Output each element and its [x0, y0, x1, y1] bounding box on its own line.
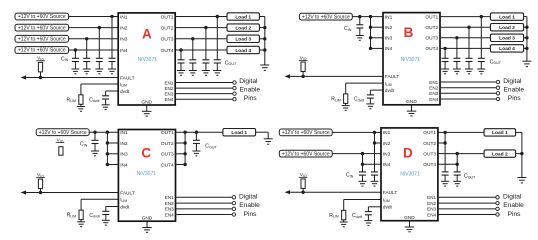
svg-text:IN1: IN1	[383, 130, 391, 136]
wire EN4 (D)	[438, 214, 496, 216]
ground of COUT3 (A)	[189, 71, 197, 76]
wire GND pin (A)	[146, 105, 148, 111]
svg-text:+12V to +60V Source: +12V to +60V Source	[18, 25, 66, 31]
wire EN3 (C)	[176, 208, 233, 210]
wire bus to IN3 (C)	[107, 153, 118, 155]
resistor VIO (A)	[38, 62, 42, 72]
wire FAULT line (A)	[26, 77, 118, 79]
svg-text:+12V to +60V Source: +12V to +60V Source	[39, 130, 87, 136]
ground of RLIM (D)	[340, 222, 348, 227]
wire dvdt (B)	[370, 89, 383, 91]
svg-text:IN1: IN1	[120, 130, 128, 136]
svg-text:GND: GND	[142, 216, 153, 222]
wire bus to OUT3 (C)	[176, 153, 186, 155]
svg-text:IN3: IN3	[120, 152, 128, 158]
wire EN1 (C)	[176, 196, 233, 198]
wire source1 to IN1 (D)	[332, 131, 381, 133]
svg-text:FAULT: FAULT	[385, 74, 400, 80]
svg-text:Cdvdt: Cdvdt	[89, 97, 99, 103]
svg-text:IN4: IN4	[120, 48, 128, 54]
enable pin circle EN1 (B)	[496, 80, 499, 83]
junction IN2/CIN (A)	[98, 26, 101, 29]
load box Load 1 (C)	[223, 129, 256, 136]
svg-text:FAULT: FAULT	[120, 190, 135, 196]
wire OUT4 to Load 4 (B)	[440, 47, 490, 49]
junction load return (B)	[525, 26, 528, 29]
capacitor COUT1 (B)	[478, 58, 485, 61]
wire bus to IN2 (C)	[107, 142, 118, 144]
svg-text:EN1: EN1	[164, 80, 173, 85]
enable pin circle EN3 (C)	[232, 207, 235, 210]
op-amp U-B NIV3071 chip body	[383, 13, 440, 105]
wire CIN (C) to ground	[94, 144, 96, 152]
wire source2 to IN3 (D)	[332, 153, 381, 155]
ground of load return (C)	[264, 139, 273, 144]
ground of CIN (C)	[91, 151, 99, 156]
ground of load return (A)	[260, 65, 269, 70]
svg-text:D: D	[403, 146, 413, 161]
capacitor COUT1 (A)	[214, 60, 221, 63]
wire OUT3 to Load 2 (D)	[438, 153, 484, 155]
wire OUT1 to Load 1 (C)	[176, 131, 223, 133]
wire OUT3 to Load 3 (A)	[175, 38, 227, 40]
arrowhead VO sense line (A)	[21, 75, 27, 79]
load box Load 3 (A)	[227, 35, 259, 42]
ground of CIN-b (D)	[371, 181, 379, 186]
junction OUT2/COUT (A)	[204, 26, 207, 29]
capacitor COUT2 (A)	[202, 60, 209, 63]
capacitor CIN4 (A)	[72, 58, 79, 61]
wire OUT4 stub (D)	[438, 163, 457, 165]
wire COUT-b to ground (D)	[456, 175, 458, 181]
wire Load 1 to return bus (D)	[516, 131, 522, 133]
svg-text:RLIM: RLIM	[67, 213, 77, 219]
svg-text:EN1: EN1	[165, 195, 174, 200]
junction OUT2/COUT (B)	[467, 26, 470, 29]
op-amp U-D NIV3071 chip body	[381, 128, 438, 221]
wire OUT2 stub (D)	[438, 142, 445, 144]
svg-text:IN1: IN1	[120, 14, 128, 20]
svg-text:EN3: EN3	[165, 207, 174, 212]
wire EN1 (B)	[440, 81, 496, 83]
svg-text:CIN: CIN	[344, 26, 352, 32]
svg-text:Digital: Digital	[239, 193, 258, 200]
wire source4 to IN4 (A)	[69, 49, 119, 51]
wire to CIN1 (A)	[111, 17, 113, 59]
wire bus to IN4 (C)	[107, 164, 118, 166]
wire down to Cdvdt (B)	[369, 90, 371, 95]
svg-text:GND: GND	[404, 215, 415, 221]
capacitor COUT-a (D)	[442, 172, 449, 175]
ground of GND pin (A)	[142, 111, 152, 116]
svg-text:Load 1: Load 1	[235, 14, 251, 20]
ground of Cdvdt (D)	[364, 221, 372, 226]
wire to CIN3 (A)	[86, 39, 88, 59]
svg-text:OUT2: OUT2	[161, 25, 174, 31]
capacitor COUT (C)	[193, 140, 200, 143]
svg-text:RLIM: RLIM	[329, 213, 339, 219]
svg-text:COUT: COUT	[464, 174, 476, 180]
wire CIN3 (A) to ground	[86, 62, 88, 70]
junction input bus/IN3 (C)	[106, 152, 109, 155]
wire COUT3 (A) to ground	[192, 63, 194, 71]
svg-text:OUT1: OUT1	[161, 14, 174, 20]
resistor VIO (B)	[301, 62, 305, 72]
wire GND pin (B)	[411, 105, 413, 111]
capacitor CIN-a (D)	[359, 172, 366, 175]
svg-text:OUT1: OUT1	[161, 130, 174, 136]
capacitor CIN2 (A)	[96, 58, 103, 61]
resistor VIO under source (C)	[59, 147, 63, 156]
wire RLIM to ground (C)	[80, 220, 82, 222]
capacitor Cdvdt (A)	[102, 96, 109, 99]
ground of GND pin (D)	[405, 227, 415, 232]
junction output bus top (C)	[183, 131, 186, 134]
load box Load 1 (B)	[490, 13, 523, 20]
enable pin circle EN3 (D)	[496, 207, 499, 210]
wire input bus (B)	[370, 17, 372, 49]
junction input bus/IN3 (B)	[369, 36, 372, 39]
wire output bus (C)	[184, 132, 186, 164]
wire COUT2 (A) to ground	[205, 63, 207, 71]
wire down to Cdvdt (A)	[105, 91, 107, 96]
wire bus to OUT4 (C)	[176, 164, 186, 166]
wire to COUT2 (B)	[468, 27, 470, 58]
wire down to RLIM (A)	[80, 84, 82, 95]
wire COUT1 (A) to ground	[216, 63, 218, 71]
svg-text:IN2: IN2	[383, 141, 391, 147]
wire ILIM (A)	[81, 83, 118, 85]
wire to COUT1 (B)	[480, 17, 482, 59]
junction output bus/OUT3 (C)	[183, 152, 186, 155]
svg-text:OUT4: OUT4	[161, 162, 174, 168]
wire FAULT line (D)	[290, 191, 381, 193]
wire source3 to IN3 (A)	[69, 38, 119, 40]
load box Load 2 (A)	[227, 24, 259, 31]
svg-text:OUT3: OUT3	[425, 36, 438, 42]
svg-text:dvdt: dvdt	[385, 88, 395, 94]
wire CIN2 (A) to ground	[98, 62, 100, 70]
junction input bus top (C)	[106, 131, 109, 134]
junction input bus/IN2 (B)	[369, 26, 372, 29]
junction load return (B)	[525, 36, 528, 39]
svg-text:IN3: IN3	[383, 151, 391, 157]
arrowhead VO sense line (D)	[285, 190, 291, 194]
wire to COUT2 (A)	[205, 28, 207, 60]
wire Load 2 to return bus (A)	[259, 27, 264, 29]
svg-text:Load 4: Load 4	[499, 46, 515, 52]
wire COUT4 (A) to ground	[180, 63, 182, 71]
wire EN4 (A)	[175, 98, 233, 100]
ground of CIN-a (D)	[359, 181, 367, 186]
source V1 (+12V to +60V) C	[36, 129, 89, 136]
svg-text:RLIM: RLIM	[331, 96, 341, 102]
resistor RLIM (C)	[79, 210, 83, 220]
wire dvdt (A)	[106, 90, 119, 92]
svg-text:CIN: CIN	[80, 142, 88, 148]
enable pin circle EN4 (D)	[496, 213, 499, 216]
wire bus to IN3 (B)	[371, 37, 384, 39]
wire bus to IN4 (B)	[371, 47, 384, 49]
ground of RLIM (B)	[342, 106, 350, 111]
ground of load return (D)	[517, 178, 526, 183]
svg-text:OUT3: OUT3	[161, 152, 174, 158]
wire FAULT line (C)	[26, 192, 118, 194]
wire Load 3 to return bus (B)	[524, 37, 527, 39]
wire EN1 (A)	[175, 82, 233, 84]
svg-text:OUT4: OUT4	[425, 46, 438, 52]
svg-text:IN3: IN3	[120, 37, 128, 43]
svg-text:OUT4: OUT4	[161, 48, 174, 54]
wire VIO resistor to fault line (B)	[302, 72, 304, 77]
svg-text:GND: GND	[406, 99, 417, 105]
svg-text:FAULT: FAULT	[383, 190, 398, 196]
svg-text:Digital: Digital	[503, 78, 522, 85]
svg-text:EN3: EN3	[429, 91, 438, 96]
svg-text:Enable: Enable	[503, 202, 524, 209]
svg-text:IN2: IN2	[385, 25, 393, 31]
underline of VIO (B)	[299, 59, 308, 61]
load box Load 4 (B)	[490, 45, 523, 52]
svg-text:Load 1: Load 1	[499, 14, 515, 20]
svg-text:Load 3: Load 3	[499, 36, 515, 42]
ground of COUT4 (B)	[441, 69, 449, 74]
svg-text:Load 1: Load 1	[492, 130, 508, 136]
wire to CIN2 (A)	[98, 28, 100, 59]
ground of CIN1 (A)	[108, 69, 116, 74]
junction output bus/OUT2 (C)	[183, 141, 186, 144]
load box Load 1 (A)	[227, 13, 259, 20]
svg-text:+12V to +60V Source: +12V to +60V Source	[18, 48, 66, 54]
wire ILIM (D)	[344, 199, 381, 201]
wire return bus to ground (A)	[264, 50, 266, 65]
capacitor COUT3 (B)	[453, 58, 460, 61]
svg-text:IN2: IN2	[120, 141, 128, 147]
svg-text:A: A	[142, 26, 152, 41]
svg-text:+12V to +60V Source: +12V to +60V Source	[282, 130, 330, 136]
capacitor Cdvdt (D)	[365, 212, 372, 215]
enable pin circle EN3 (B)	[496, 92, 499, 95]
wire EN3 (A)	[175, 93, 233, 95]
wire OUT1 to Load 1 (B)	[440, 16, 490, 18]
wire return bus to ground (B)	[526, 48, 528, 61]
junction OUT2 bus (D)	[443, 141, 446, 144]
svg-text:Pins: Pins	[508, 95, 522, 102]
wire to CIN (C)	[94, 132, 96, 140]
arrowhead VO sense line (B)	[285, 74, 291, 78]
junction OUT3/COUT (B)	[455, 36, 458, 39]
svg-text:+12V to +60V Source: +12V to +60V Source	[302, 14, 350, 20]
resistor VIO (C)	[38, 179, 42, 189]
wire down to Cdvdt (C)	[105, 207, 107, 212]
wire COUT (C) to ground	[195, 144, 197, 152]
svg-text:OUT2: OUT2	[423, 141, 436, 147]
wire COUT2 (B) to ground	[468, 62, 470, 70]
svg-text:IN2: IN2	[120, 25, 128, 31]
svg-text:EN4: EN4	[427, 212, 436, 217]
svg-text:IN4: IN4	[383, 162, 391, 168]
svg-text:dvdt: dvdt	[120, 89, 130, 95]
svg-text:Load 2: Load 2	[499, 25, 515, 31]
svg-text:Cdvdt: Cdvdt	[352, 213, 362, 219]
svg-text:Load 4: Load 4	[235, 48, 251, 54]
resistor RLIM (B)	[344, 94, 348, 104]
source V1 (+12V to +60V) B	[299, 13, 352, 20]
svg-text:Load 1: Load 1	[231, 130, 247, 136]
op-amp U-A NIV3071 chip body	[118, 13, 175, 105]
junction IN1/CIN (A)	[110, 15, 113, 18]
enable pin circle EN2 (C)	[232, 201, 235, 204]
junction IN2 bus (D)	[373, 141, 376, 144]
wire dvdt (C)	[106, 206, 119, 208]
svg-text:NIV3071: NIV3071	[137, 171, 157, 177]
wire Load 3 to return bus (A)	[259, 38, 264, 40]
load box Load 4 (A)	[227, 46, 259, 53]
svg-text:COUT: COUT	[225, 60, 237, 66]
junction VIO/fault (A)	[39, 76, 42, 79]
enable pin circle EN4 (C)	[232, 213, 235, 216]
junction OUT4/COUT (A)	[179, 48, 182, 51]
source V2 (+12V to +60V) D	[279, 150, 332, 157]
wire input bus 2 (D)	[362, 154, 364, 172]
ground of COUT3 (B)	[453, 69, 461, 74]
capacitor Cdvdt (C)	[102, 211, 109, 214]
junction load return (A)	[263, 48, 266, 51]
wire to COUT3 (B)	[456, 38, 458, 59]
load box Load 2 (D)	[484, 150, 515, 157]
wire Load 1 to return bus (A)	[259, 16, 264, 18]
svg-text:OUT4: OUT4	[423, 162, 436, 168]
ground of RLIM (A)	[77, 107, 85, 112]
wire Load 4 to return bus (A)	[259, 49, 264, 51]
wire EN4 (C)	[176, 214, 233, 216]
svg-text:EN4: EN4	[164, 97, 173, 102]
wire EN2 (A)	[175, 87, 233, 89]
junction output bus/OUT4 (C)	[183, 163, 186, 166]
ground of COUT2 (A)	[202, 71, 210, 76]
svg-text:+12V to +60V Source: +12V to +60V Source	[18, 14, 66, 20]
svg-text:dvdt: dvdt	[120, 204, 130, 210]
capacitor CIN1 (A)	[109, 58, 116, 61]
ground of CIN (B)	[356, 36, 364, 41]
junction IN3 bus (D)	[361, 152, 364, 155]
svg-text:COUT: COUT	[205, 144, 217, 150]
junction OUT1/COUT (B)	[480, 15, 483, 18]
ground of RLIM (C)	[77, 222, 85, 227]
capacitor CIN-b (D)	[371, 172, 378, 175]
load box Load 2 (B)	[490, 24, 523, 31]
wire to COUT (C)	[195, 132, 197, 140]
junction OUT4/COUT (B)	[443, 47, 446, 50]
wire output bus 2 (D)	[456, 154, 458, 172]
wire source2 to IN2 (A)	[69, 27, 119, 29]
enable pin circle EN3 (A)	[233, 92, 236, 95]
enable pin circle EN1 (D)	[496, 196, 499, 199]
underline of VIO under source (C)	[56, 142, 65, 144]
wire Load 4 to return bus (B)	[524, 47, 527, 49]
wire OUT3 to Load 3 (B)	[440, 37, 490, 39]
wire Load 2 to return bus (D)	[516, 153, 522, 155]
wire to COUT3 (A)	[192, 39, 194, 60]
ground of COUT1 (B)	[477, 69, 485, 74]
wire return bus to ground (D)	[521, 154, 523, 178]
svg-text:EN1: EN1	[427, 195, 436, 200]
wire VIO resistor to fault line (A)	[40, 72, 42, 78]
ground of Cdvdt (C)	[102, 220, 110, 225]
wire load return bus (A)	[264, 17, 266, 51]
wire Cdvdt to ground (C)	[105, 215, 107, 221]
wire COUT1 (B) to ground	[480, 62, 482, 70]
enable pin circle EN2 (B)	[496, 86, 499, 89]
wire CIN4 (A) to ground	[74, 62, 76, 70]
ground of CIN2 (A)	[95, 69, 103, 74]
wire COUT3 (B) to ground	[456, 62, 458, 70]
svg-text:+12V to +60V Source: +12V to +60V Source	[18, 37, 66, 43]
underline of VIO (D)	[299, 176, 308, 178]
wire EN3 (B)	[440, 92, 496, 94]
junction input bus/IN4 (C)	[106, 163, 109, 166]
svg-text:OUT3: OUT3	[423, 151, 436, 157]
wire CIN-b to ground (D)	[374, 175, 376, 181]
wire OUT2 to Load 2 (A)	[175, 27, 227, 29]
svg-text:NIV3071: NIV3071	[138, 57, 158, 63]
wire EN4 (B)	[440, 98, 496, 100]
op-amp U-C NIV3071 chip body	[118, 130, 175, 222]
source V2 (+12V to +60V) A	[15, 24, 69, 31]
wire bus1 to IN2 (D)	[375, 142, 382, 144]
wire OUT1 to Load 1 (D)	[438, 131, 484, 133]
junction input bus/IN2 (C)	[106, 141, 109, 144]
wire to CIN (B)	[359, 17, 361, 25]
junction VIO/fault (B)	[301, 75, 304, 78]
wire EN3 (D)	[438, 208, 496, 210]
svg-text:GND: GND	[141, 99, 152, 105]
wire COUT-a to ground (D)	[444, 175, 446, 181]
wire down to Cdvdt (D)	[367, 207, 369, 212]
capacitor COUT4 (B)	[442, 58, 449, 61]
ground of Cdvdt (B)	[366, 104, 374, 109]
wire source1 to IN1 (A)	[69, 16, 119, 18]
wire Cdvdt to ground (A)	[105, 99, 107, 105]
wire Cdvdt to ground (B)	[369, 98, 371, 104]
svg-text:EN1: EN1	[429, 80, 438, 85]
capacitor COUT2 (B)	[466, 58, 473, 61]
wire to COUT4 (A)	[180, 50, 182, 60]
capacitor CIN (C)	[92, 140, 99, 143]
wire OUT2 to Load 2 (B)	[440, 26, 490, 28]
wire to CIN4 (A)	[74, 50, 76, 58]
wire OUT1 to Load 1 (A)	[175, 16, 227, 18]
junction OUT4 bus (D)	[456, 163, 459, 166]
svg-text:NIV3071: NIV3071	[401, 57, 421, 63]
load box Load 1 (D)	[484, 129, 515, 136]
wire input bus (C)	[106, 132, 108, 164]
svg-text:OUT2: OUT2	[425, 25, 438, 31]
junction load return (A)	[263, 26, 266, 29]
wire VIO resistor to fault line (D)	[302, 188, 304, 192]
wire input bus 1 (D)	[374, 132, 376, 172]
junction IN4/CIN (A)	[74, 48, 77, 51]
svg-text:EN3: EN3	[427, 207, 436, 212]
svg-text:IN1: IN1	[385, 14, 393, 20]
underline of VIO (C)	[36, 177, 45, 179]
svg-text:EN3: EN3	[164, 91, 173, 96]
ground of CIN3 (A)	[83, 69, 91, 74]
junction VIO/fault (C)	[39, 191, 42, 194]
svg-text:NIV3071: NIV3071	[400, 172, 420, 178]
svg-text:Pins: Pins	[508, 211, 522, 218]
capacitor COUT3 (A)	[189, 60, 196, 63]
